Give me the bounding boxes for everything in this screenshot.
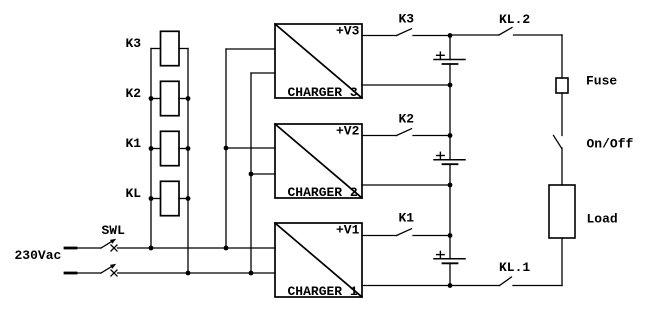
svg-text:KL.1: KL.1: [499, 260, 530, 275]
svg-text:K1: K1: [126, 136, 142, 151]
svg-text:+V3: +V3: [336, 24, 360, 39]
svg-text:Fuse: Fuse: [586, 74, 617, 89]
svg-text:230Vac: 230Vac: [15, 248, 62, 263]
svg-text:KL.2: KL.2: [499, 12, 530, 27]
svg-text:KL: KL: [126, 186, 142, 201]
svg-text:CHARGER 1: CHARGER 1: [288, 284, 358, 299]
svg-text:K3: K3: [126, 36, 142, 51]
svg-text:SWL: SWL: [102, 223, 126, 238]
svg-text:K2: K2: [126, 86, 142, 101]
svg-text:+V2: +V2: [336, 124, 360, 139]
svg-text:CHARGER 2: CHARGER 2: [288, 185, 358, 200]
svg-text:CHARGER 3: CHARGER 3: [288, 85, 358, 100]
svg-text:+V1: +V1: [336, 223, 360, 238]
svg-text:K1: K1: [399, 211, 415, 226]
svg-text:On/Off: On/Off: [587, 137, 634, 152]
svg-text:Load: Load: [587, 211, 618, 226]
svg-text:K2: K2: [399, 112, 415, 127]
svg-text:K3: K3: [399, 12, 415, 27]
